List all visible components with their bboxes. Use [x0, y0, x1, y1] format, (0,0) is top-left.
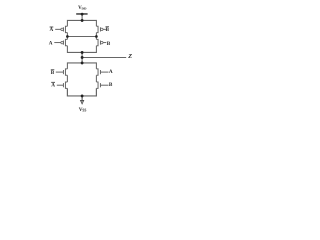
- svg-text:B: B: [51, 70, 55, 76]
- transistor M2 gate bar: [99, 27, 101, 31]
- wire NMOS top rail with corners: [67, 63, 96, 69]
- wire left trunk row1-row2: [66, 33, 68, 40]
- svg-text:A: A: [109, 69, 113, 75]
- junction dot VDD bar: [81, 13, 84, 16]
- wire right trunk row1-row2: [95, 33, 97, 40]
- wire gate M4: [103, 42, 106, 44]
- transistor M1 bubble: [61, 28, 63, 30]
- wire gate M1: [55, 28, 61, 30]
- svg-text:B: B: [107, 41, 111, 47]
- junction dot NMOS top rail: [81, 62, 84, 65]
- wire gate M7: [57, 84, 64, 86]
- wire output Z: [82, 56, 126, 58]
- wire gate M8: [100, 84, 108, 86]
- transistor M3 (PMOS, gate A) channel: [65, 39, 67, 45]
- transistor M1 (PMOS, gate A-bar) channel: [65, 26, 67, 32]
- transistor M3 bubble: [61, 41, 63, 43]
- transistor M2 bubble: [101, 28, 103, 30]
- junction dot middle rail right: [95, 35, 98, 38]
- transistor M4 (PMOS, gate B) channel: [96, 39, 98, 45]
- svg-text:B: B: [109, 82, 113, 88]
- transistor M6 (NMOS, gate A) channel: [96, 69, 98, 75]
- wire middle rail PMOS: [67, 35, 96, 37]
- wire PMOS bottom rail with corners: [67, 46, 96, 53]
- VDD supply bar: [76, 13, 87, 15]
- transistor M1 gate bar: [62, 27, 64, 31]
- wire left trunk row3-row4: [66, 75, 68, 82]
- junction dot NMOS bottom rail: [81, 95, 84, 98]
- wire right trunk row3-row4: [95, 75, 97, 82]
- transistor M5 (NMOS, gate B-bar) channel: [65, 69, 67, 75]
- wire VDD stub: [81, 14, 83, 20]
- svg-text:SS: SS: [82, 109, 86, 113]
- transistor M7 (NMOS, gate A-bar) channel: [65, 82, 67, 88]
- wire gate M5: [56, 71, 64, 73]
- svg-text:A: A: [50, 27, 54, 33]
- wire VSS stub: [81, 96, 83, 102]
- svg-text:B: B: [106, 27, 110, 33]
- wire gate M3: [54, 42, 61, 44]
- svg-text:A: A: [51, 82, 55, 88]
- transistor M5 gate bar: [62, 70, 64, 74]
- wire output stub: [81, 52, 83, 63]
- svg-text:DD: DD: [82, 7, 87, 11]
- transistor M8 (NMOS, gate B) channel: [96, 82, 98, 88]
- junction dot PMOS bottom rail: [81, 51, 84, 54]
- junction dot middle rail left: [66, 35, 69, 38]
- junction dot top rail: [81, 19, 84, 22]
- transistor M4 gate bar: [99, 41, 101, 45]
- transistor M2 (PMOS, gate B-bar) channel: [96, 26, 98, 32]
- transistor M3 gate bar: [62, 41, 64, 45]
- wire gate M2: [103, 28, 106, 30]
- transistor M8 gate bar: [99, 83, 101, 87]
- svg-text:A: A: [49, 40, 53, 46]
- transistor M4 bubble: [101, 41, 103, 43]
- transistor M7 gate bar: [62, 83, 64, 87]
- transistor M6 gate bar: [99, 70, 101, 74]
- wire top rail with corners: [67, 20, 96, 26]
- VSS arrow symbol: [81, 100, 84, 104]
- svg-text:Z: Z: [127, 53, 132, 60]
- wire NMOS bottom rail with corners: [67, 88, 96, 96]
- wire gate M6: [100, 71, 108, 73]
- junction dot output Z: [81, 56, 84, 59]
